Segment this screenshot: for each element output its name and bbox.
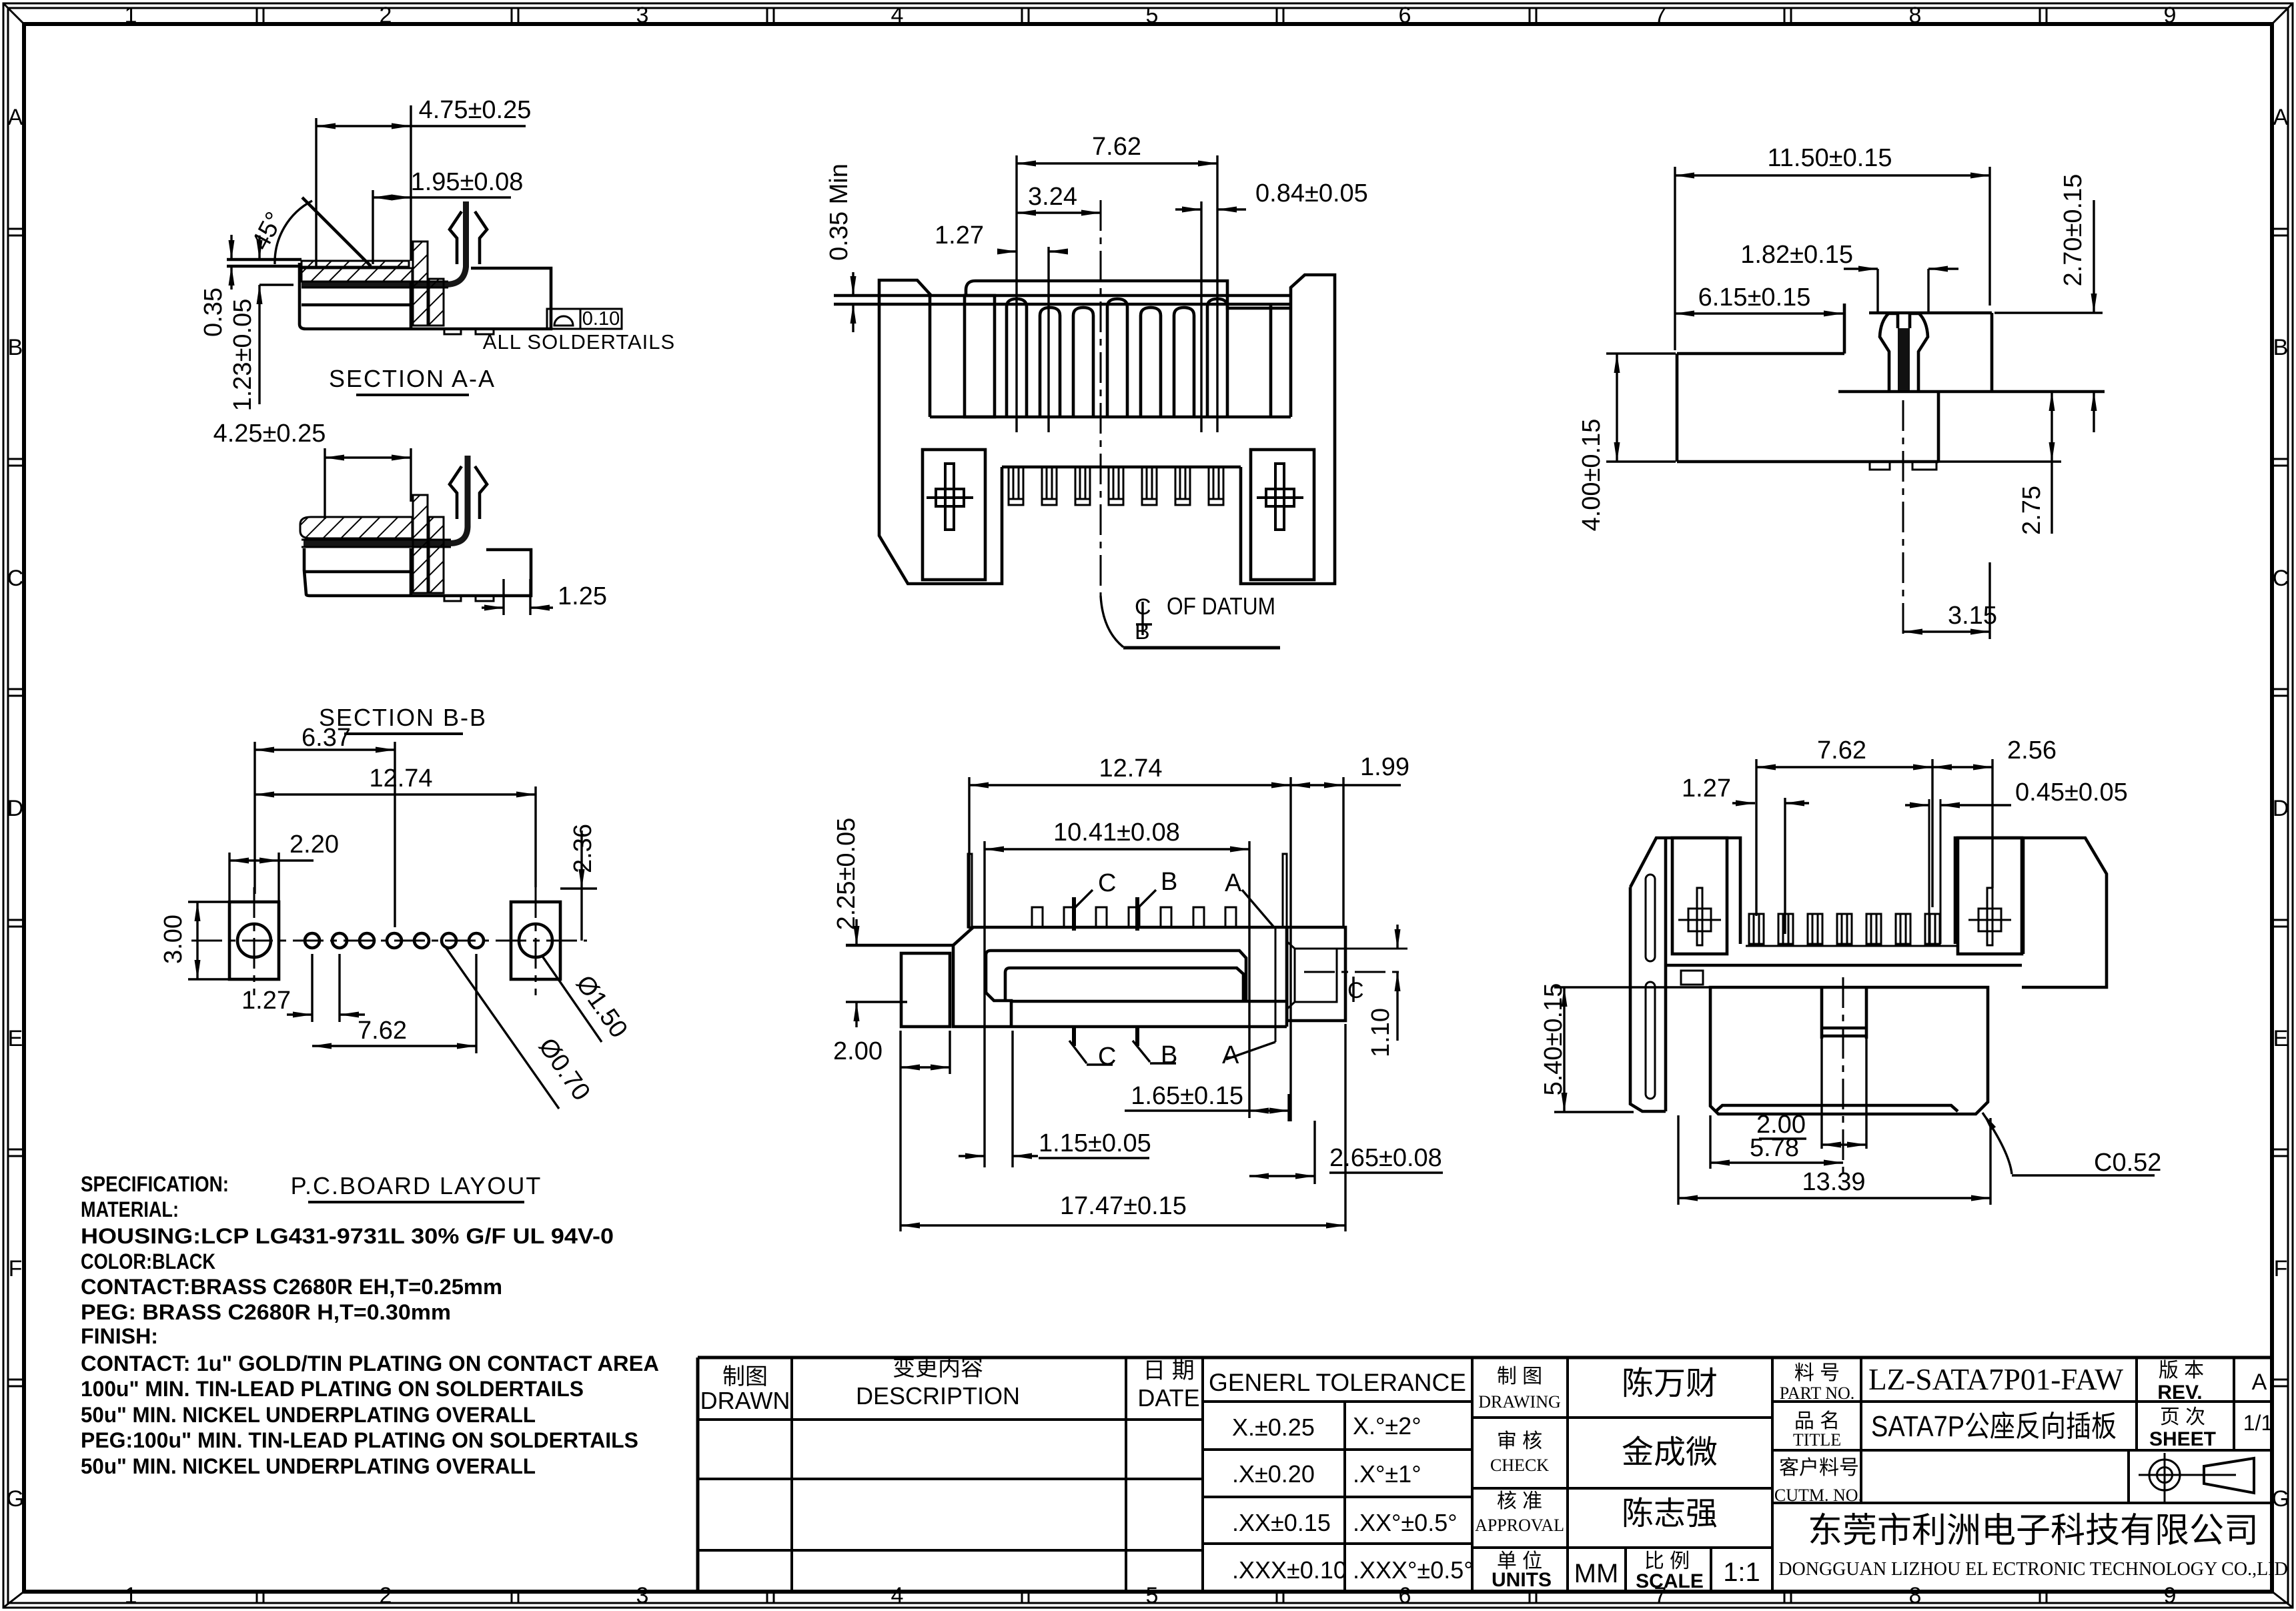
svg-text:2.70±0.15: 2.70±0.15 (2059, 174, 2087, 287)
svg-text:品 名: 品 名 (1794, 1410, 1840, 1432)
svg-text:1.65±0.15: 1.65±0.15 (1131, 1082, 1243, 1110)
svg-text:.XX±0.15: .XX±0.15 (1232, 1509, 1331, 1536)
pin holes row (305, 933, 484, 948)
svg-text:CUTM. NO.: CUTM. NO. (1774, 1486, 1862, 1505)
dim 1.27 (241, 954, 365, 1022)
svg-text:MATERIAL:: MATERIAL: (81, 1197, 179, 1221)
svg-text:A: A (1225, 869, 1242, 897)
section labels bottom C B A (1069, 1027, 1275, 1071)
svg-text:3.24: 3.24 (1028, 183, 1077, 211)
title P.C.BOARD LAYOUT (291, 1172, 542, 1202)
solder tails (444, 596, 461, 601)
dim 3.00 (159, 902, 229, 979)
title SECTION B-B (319, 704, 487, 734)
svg-text:1/1: 1/1 (2243, 1411, 2273, 1435)
svg-text:DRAWING: DRAWING (1478, 1392, 1561, 1412)
P.C. BOARD LAYOUT view (159, 724, 633, 1202)
svg-text:1.23±0.05: 1.23±0.05 (229, 299, 257, 412)
dim 1.25 (482, 579, 607, 615)
left mounting pad (229, 887, 279, 995)
svg-text:F: F (9, 1256, 23, 1281)
svg-text:1: 1 (125, 1583, 137, 1608)
dim 12.74 (969, 754, 1291, 1121)
FRONT VIEW (center top) (825, 133, 1368, 648)
svg-text:C: C (2273, 566, 2289, 591)
svg-text:SHEET: SHEET (2149, 1428, 2216, 1450)
pin barbs (450, 211, 462, 264)
svg-text:5: 5 (1146, 1583, 1159, 1608)
svg-text:2.75: 2.75 (2018, 486, 2046, 535)
svg-text:制图: 制图 (722, 1364, 768, 1390)
svg-text:0.45±0.05: 0.45±0.05 (2015, 778, 2128, 807)
solder pins under shelf (1009, 467, 1023, 505)
svg-text:料 号: 料 号 (1794, 1362, 1840, 1384)
svg-text:DATE: DATE (1137, 1384, 1199, 1412)
svg-text:50u" MIN. NICKEL UNDERPLATI: 50u" MIN. NICKEL UNDERPLATING OVERALL (81, 1403, 536, 1427)
svg-text:12.74: 12.74 (369, 764, 432, 792)
body outline (846, 854, 1407, 1027)
svg-text:FINISH:: FINISH: (81, 1324, 158, 1348)
svg-text:6: 6 (1399, 1583, 1411, 1608)
svg-text:5.78: 5.78 (1750, 1134, 1799, 1162)
housing body (300, 263, 551, 329)
dim 45 deg (246, 197, 371, 266)
label dia 1.50 (542, 955, 633, 1043)
svg-text:1:1: 1:1 (1723, 1558, 1760, 1587)
body A-A (227, 201, 551, 334)
svg-text:制 图: 制 图 (1497, 1366, 1542, 1388)
svg-text:0.35 Min: 0.35 Min (825, 163, 853, 261)
svg-text:4: 4 (891, 3, 904, 28)
svg-text:TITLE: TITLE (1793, 1430, 1841, 1450)
svg-text:2.20: 2.20 (290, 831, 339, 859)
svg-text:B: B (1135, 619, 1150, 644)
svg-text:C: C (1347, 978, 1364, 1003)
center datum line (1101, 200, 1280, 648)
mounting ears (923, 450, 1314, 580)
svg-text:2: 2 (380, 1583, 392, 1608)
svg-text:.XXX±0.10: .XXX±0.10 (1232, 1556, 1347, 1584)
svg-text:CONTACT: 1u" GOLD/TIN PLATI: CONTACT: 1u" GOLD/TIN PLATING ON CONTACT… (81, 1352, 659, 1376)
svg-text:6.37: 6.37 (302, 724, 351, 752)
dim 1.82±0.15 (1740, 241, 1958, 312)
svg-text:3: 3 (636, 1583, 649, 1608)
specification notes (81, 1172, 659, 1478)
svg-text:9: 9 (2164, 3, 2177, 28)
svg-text:核 准: 核 准 (1497, 1490, 1542, 1512)
svg-text:DONGGUAN LIZHOU EL ECTRONIC TE: DONGGUAN LIZHOU EL ECTRONIC TECHNOLOGY C… (1778, 1559, 2287, 1580)
svg-text:PART NO.: PART NO. (1780, 1384, 1855, 1403)
dim 4.25±0.25 (213, 420, 411, 519)
SECTION A-A view (199, 96, 675, 411)
dim 5.40±0.15 (1540, 983, 1709, 1112)
svg-text:B: B (1161, 868, 1177, 896)
label dia 0.70 (446, 947, 596, 1109)
svg-text:PEG: BRASS C2680R H,T=0.30m: PEG: BRASS C2680R H,T=0.30mm (81, 1300, 451, 1324)
svg-text:3: 3 (636, 3, 649, 28)
dim 4.75±0.25 (316, 96, 531, 267)
svg-text:F: F (2274, 1256, 2288, 1281)
svg-text:2: 2 (380, 3, 392, 28)
body outline (1677, 304, 2105, 462)
dim 1.65±0.15 (1125, 1082, 1289, 1121)
svg-text:陈万财: 陈万财 (1622, 1366, 1718, 1402)
svg-text:1.99: 1.99 (1360, 753, 1409, 781)
svg-text:REV.: REV. (2157, 1382, 2202, 1404)
svg-text:A: A (2252, 1370, 2267, 1395)
svg-text:A: A (2273, 105, 2289, 130)
dim 3.15 (1903, 562, 1997, 639)
svg-text:.XXX°±0.5°: .XXX°±0.5° (1353, 1556, 1474, 1584)
title block (698, 1356, 2288, 1592)
svg-text:2.00: 2.00 (833, 1037, 883, 1065)
peg stubs (1870, 462, 1936, 470)
body outline (834, 275, 1335, 584)
dim 2.36 (560, 824, 597, 941)
svg-text:审 核: 审 核 (1497, 1430, 1542, 1452)
pin barbs (450, 466, 462, 519)
dim 5.78 (1710, 1115, 1843, 1169)
svg-text:E: E (8, 1026, 23, 1051)
svg-text:5: 5 (1146, 3, 1159, 28)
feature control frame 0.10 (547, 308, 622, 330)
svg-text:13.39: 13.39 (1802, 1168, 1865, 1196)
svg-text:APPROVAL: APPROVAL (1475, 1516, 1564, 1535)
svg-text:7.62: 7.62 (1817, 736, 1866, 764)
dim 3.24 (1017, 183, 1101, 213)
svg-text:OF DATUM: OF DATUM (1167, 592, 1275, 620)
svg-text:A: A (8, 105, 23, 130)
svg-text:P.C.BOARD LAYOUT: P.C.BOARD LAYOUT (291, 1172, 542, 1199)
svg-text:6.15±0.15: 6.15±0.15 (1698, 284, 1811, 312)
dim 1.10 (1367, 925, 1397, 1057)
svg-text:SATA7P公座反向插板: SATA7P公座反向插板 (1871, 1410, 2117, 1443)
svg-text:7: 7 (1654, 3, 1667, 28)
dim 7.62 (312, 954, 476, 1053)
svg-text:2.36: 2.36 (569, 824, 597, 873)
dim 0.35 Min (825, 163, 853, 332)
dim 7.62 (1756, 736, 1932, 916)
svg-text:4.75±0.25: 4.75±0.25 (419, 96, 532, 124)
dim 2.56 (1932, 736, 2057, 888)
BOTTOM VIEW (bottom right) (1540, 736, 2161, 1205)
svg-text:G: G (2272, 1486, 2289, 1512)
svg-text:页 次: 页 次 (2160, 1406, 2205, 1428)
svg-text:1.10: 1.10 (1367, 1008, 1395, 1057)
svg-text:1.15±0.05: 1.15±0.05 (1039, 1129, 1151, 1157)
third angle projection symbol (2139, 1453, 2254, 1502)
svg-text:客户料号: 客户料号 (1779, 1457, 1859, 1479)
svg-text:变更内容: 变更内容 (893, 1356, 983, 1381)
dim 2.20 (229, 831, 339, 902)
svg-text:CONTACT:BRASS C2680R EH,T=0.: CONTACT:BRASS C2680R EH,T=0.25mm (81, 1275, 502, 1299)
svg-text:SPECIFICATION:: SPECIFICATION: (81, 1172, 229, 1196)
svg-text:版 本: 版 本 (2159, 1360, 2204, 1382)
svg-text:1.25: 1.25 (558, 582, 607, 610)
svg-text:D: D (7, 796, 24, 821)
svg-text:0.10: 0.10 (582, 308, 620, 330)
svg-text:LZ-SATA7P01-FAW: LZ-SATA7P01-FAW (1868, 1362, 2124, 1396)
dim 12.74 (255, 764, 536, 887)
dim 1.95±0.08 (373, 168, 523, 264)
dim 17.47±0.15 (901, 1024, 1345, 1231)
dim 2.00 (833, 1031, 950, 1074)
svg-text:ALL SOLDERTAILS: ALL SOLDERTAILS (483, 330, 675, 354)
svg-text:1.95±0.08: 1.95±0.08 (411, 168, 524, 196)
svg-text:4.25±0.25: 4.25±0.25 (213, 420, 326, 448)
body B-B (300, 456, 531, 601)
svg-text:HOUSING:LCP LG431-9731L 30%: HOUSING:LCP LG431-9731L 30% G/F UL 94V-0 (81, 1224, 614, 1248)
dim 2.65±0.08 (1249, 1121, 1443, 1184)
svg-text:12.74: 12.74 (1099, 754, 1162, 782)
svg-text:东莞市利洲电子科技有限公司: 东莞市利洲电子科技有限公司 (1808, 1512, 2259, 1550)
svg-text:17.47±0.15: 17.47±0.15 (1060, 1192, 1187, 1220)
section labels top C B A (1074, 868, 1275, 1042)
svg-text:DRAWN: DRAWN (700, 1387, 790, 1414)
svg-text:7.62: 7.62 (1092, 133, 1141, 161)
dim 6.15±0.15 (1675, 284, 1843, 314)
dim 10.41±0.08 (985, 819, 1249, 1167)
solder tails (444, 329, 461, 334)
dim 1.23±0.05 (229, 235, 294, 411)
dim 2.25±0.05 (832, 818, 907, 1027)
svg-text:3.00: 3.00 (159, 915, 187, 964)
svg-text:C0.52: C0.52 (2094, 1149, 2161, 1177)
dim 7.62 (1017, 133, 1217, 432)
svg-text:.X°±1°: .X°±1° (1353, 1460, 1421, 1488)
dim 2.75 (1938, 392, 2061, 535)
svg-text:UNITS: UNITS (1492, 1569, 1552, 1591)
dim 6.37 (255, 724, 395, 927)
svg-text:11.50±0.15: 11.50±0.15 (1767, 144, 1892, 172)
svg-text:0.84±0.05: 0.84±0.05 (1255, 179, 1368, 207)
svg-text:100u" MIN. TIN-LEAD PLATING: 100u" MIN. TIN-LEAD PLATING ON SOLDERTAI… (81, 1377, 584, 1401)
right tab detail (1287, 927, 1289, 1021)
svg-text:陈志强: 陈志强 (1622, 1496, 1718, 1532)
svg-text:CHECK: CHECK (1490, 1456, 1549, 1475)
svg-text:1.27: 1.27 (1682, 774, 1731, 802)
contact blade (304, 456, 468, 544)
dim 1.27 (1682, 774, 1809, 934)
svg-text:X.±0.25: X.±0.25 (1232, 1414, 1315, 1441)
centerline (1902, 400, 1904, 640)
svg-text:SECTION A-A: SECTION A-A (329, 365, 496, 392)
svg-text:.X±0.20: .X±0.20 (1232, 1460, 1315, 1488)
svg-text:G: G (7, 1486, 24, 1512)
svg-text:E: E (2273, 1026, 2289, 1051)
right mounting pad (511, 887, 560, 995)
svg-text:MM: MM (1574, 1559, 1619, 1588)
svg-text:比 例: 比 例 (1644, 1550, 1690, 1572)
svg-text:SCALE: SCALE (1636, 1570, 1704, 1592)
svg-text:4: 4 (891, 1583, 904, 1608)
dim 13.39 (1678, 1115, 1990, 1205)
chamfer note C0.52 (1982, 1113, 2161, 1177)
SIDE VIEW (top right) (1578, 144, 2105, 640)
title SECTION A-A (329, 365, 496, 395)
dim 0.35 (199, 235, 231, 337)
svg-text:C: C (1098, 869, 1116, 897)
svg-text:金成微: 金成微 (1622, 1435, 1718, 1470)
svg-text:DESCRIPTION: DESCRIPTION (856, 1382, 1020, 1410)
svg-text:日 期: 日 期 (1143, 1358, 1194, 1384)
svg-text:8: 8 (1909, 3, 1922, 28)
svg-text:B: B (1161, 1041, 1177, 1069)
svg-text:1: 1 (125, 3, 137, 28)
SECTION B-B view (213, 420, 607, 734)
dim 2.00 (1756, 1039, 1866, 1149)
svg-text:50u" MIN. NICKEL UNDERPLATI: 50u" MIN. NICKEL UNDERPLATING OVERALL (81, 1454, 536, 1478)
svg-text:COLOR:BLACK: COLOR:BLACK (81, 1249, 215, 1273)
svg-text:C: C (7, 566, 24, 591)
upper body (1630, 838, 2107, 1111)
contact pin (side) (1880, 314, 1928, 390)
dim 1.99 (1291, 753, 1409, 926)
svg-text:4.00±0.15: 4.00±0.15 (1578, 419, 1606, 532)
svg-text:1.27: 1.27 (241, 987, 291, 1015)
svg-text:.XX°±0.5°: .XX°±0.5° (1353, 1509, 1458, 1536)
dim 1.15±0.05 (959, 1031, 1151, 1167)
svg-text:8: 8 (1909, 1583, 1922, 1608)
svg-text:1.27: 1.27 (935, 221, 984, 249)
svg-text:B: B (8, 335, 23, 360)
dim 0.84±0.05 (1175, 179, 1368, 432)
svg-text:6: 6 (1399, 3, 1411, 28)
svg-text:GENERL TOLERANCE: GENERL TOLERANCE (1209, 1369, 1466, 1396)
dim 1.27 (935, 221, 1068, 432)
svg-text:C: C (1098, 1043, 1116, 1071)
svg-text:0.35: 0.35 (199, 288, 227, 337)
dim 4.00±0.15 (1578, 354, 1676, 531)
centerline (191, 940, 587, 942)
svg-text:PEG:100u" MIN. TIN-LEAD PLA: PEG:100u" MIN. TIN-LEAD PLATING ON SOLDE… (81, 1428, 638, 1452)
recess and tongue (986, 951, 1246, 1001)
dim 0.45±0.05 (1905, 778, 2128, 944)
contact blade (302, 201, 466, 285)
TOP VIEW (bottom center) (832, 753, 1443, 1231)
svg-text:2.56: 2.56 (2007, 736, 2057, 764)
svg-text:2.25±0.05: 2.25±0.05 (832, 818, 860, 931)
svg-text:10.41±0.08: 10.41±0.08 (1053, 819, 1180, 847)
lower body (1681, 971, 1988, 1181)
housing body (304, 548, 531, 596)
svg-text:1.82±0.15: 1.82±0.15 (1740, 241, 1853, 269)
svg-text:7.62: 7.62 (358, 1017, 407, 1045)
svg-text:X.°±2°: X.°±2° (1353, 1412, 1421, 1440)
svg-text:D: D (2273, 796, 2289, 821)
svg-text:B: B (2273, 335, 2289, 360)
dim 2.70±0.15 (1994, 174, 2103, 432)
svg-text:9: 9 (2164, 1583, 2177, 1608)
dim 11.50±0.15 (1675, 144, 1990, 350)
